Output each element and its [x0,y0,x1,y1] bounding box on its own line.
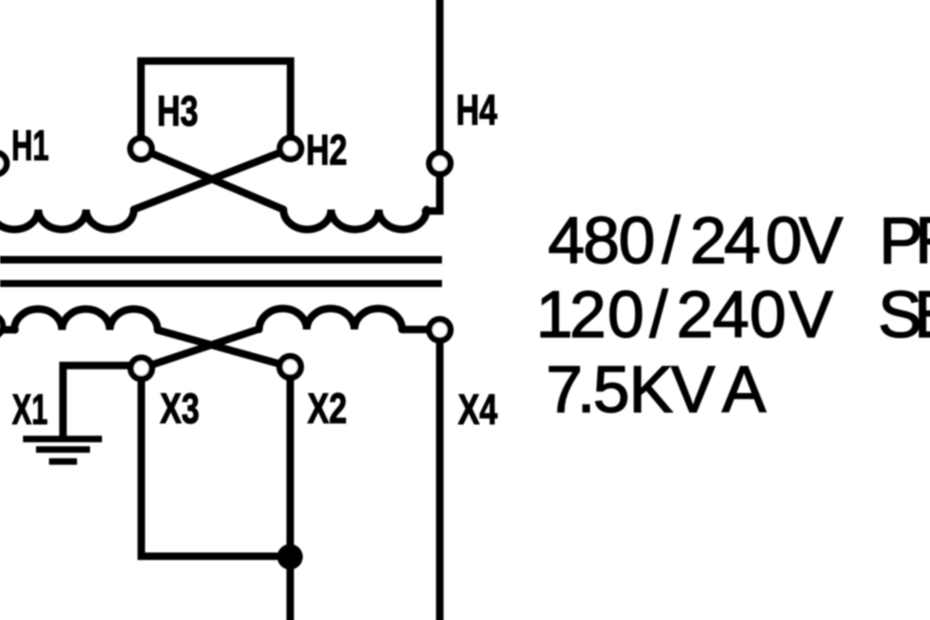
terminal X3 [131,358,152,379]
terminal X2 [280,356,301,377]
terminal X1 [0,315,3,336]
core lines [0,260,442,284]
wire H4 riser [436,0,444,157]
svg-text:X2: X2 [308,386,347,434]
terminal X4 [429,319,450,340]
wire X3 drop to junction [141,378,290,556]
svg-text:SEC: SEC [878,277,930,351]
wire stub X1 [0,326,15,334]
svg-text:480/240V: 480/240V [548,203,843,277]
secondary winding left coil [14,309,157,330]
wire ground L from X3 [63,366,138,438]
terminal H2 [280,138,301,159]
terminal H4 [429,153,450,174]
terminal H1 [0,153,7,174]
svg-text:7.5KVA: 7.5KVA [546,352,766,426]
primary winding left coil [0,210,134,230]
svg-text:H3: H3 [157,88,198,136]
svg-text:X4: X4 [458,387,497,435]
junction dot [277,544,303,570]
wire X4 drop [436,341,444,620]
terminal H3 [130,138,151,159]
wire H4 jog to coil [426,175,440,211]
svg-text:120/240V: 120/240V [536,277,833,351]
wire X4 horizontal [402,326,430,334]
wire jumper H3-H2 [141,61,291,140]
primary winding right coil [283,210,426,230]
wire crossing right secondary coil to X3 [141,329,259,368]
secondary winding right coil [259,309,402,330]
wire crossing H3 to right primary coil [141,149,283,210]
wire crossing left secondary coil to X2 [158,330,291,367]
ground [23,439,102,462]
svg-text:H2: H2 [306,127,347,175]
svg-text:H4: H4 [456,87,497,135]
svg-text:PRI: PRI [879,203,930,277]
wire X2 drop [286,377,294,620]
wire crossing H2 to left primary coil [134,149,291,210]
svg-text:H1: H1 [12,121,49,169]
svg-text:X3: X3 [160,386,199,434]
svg-text:X1: X1 [12,385,48,433]
